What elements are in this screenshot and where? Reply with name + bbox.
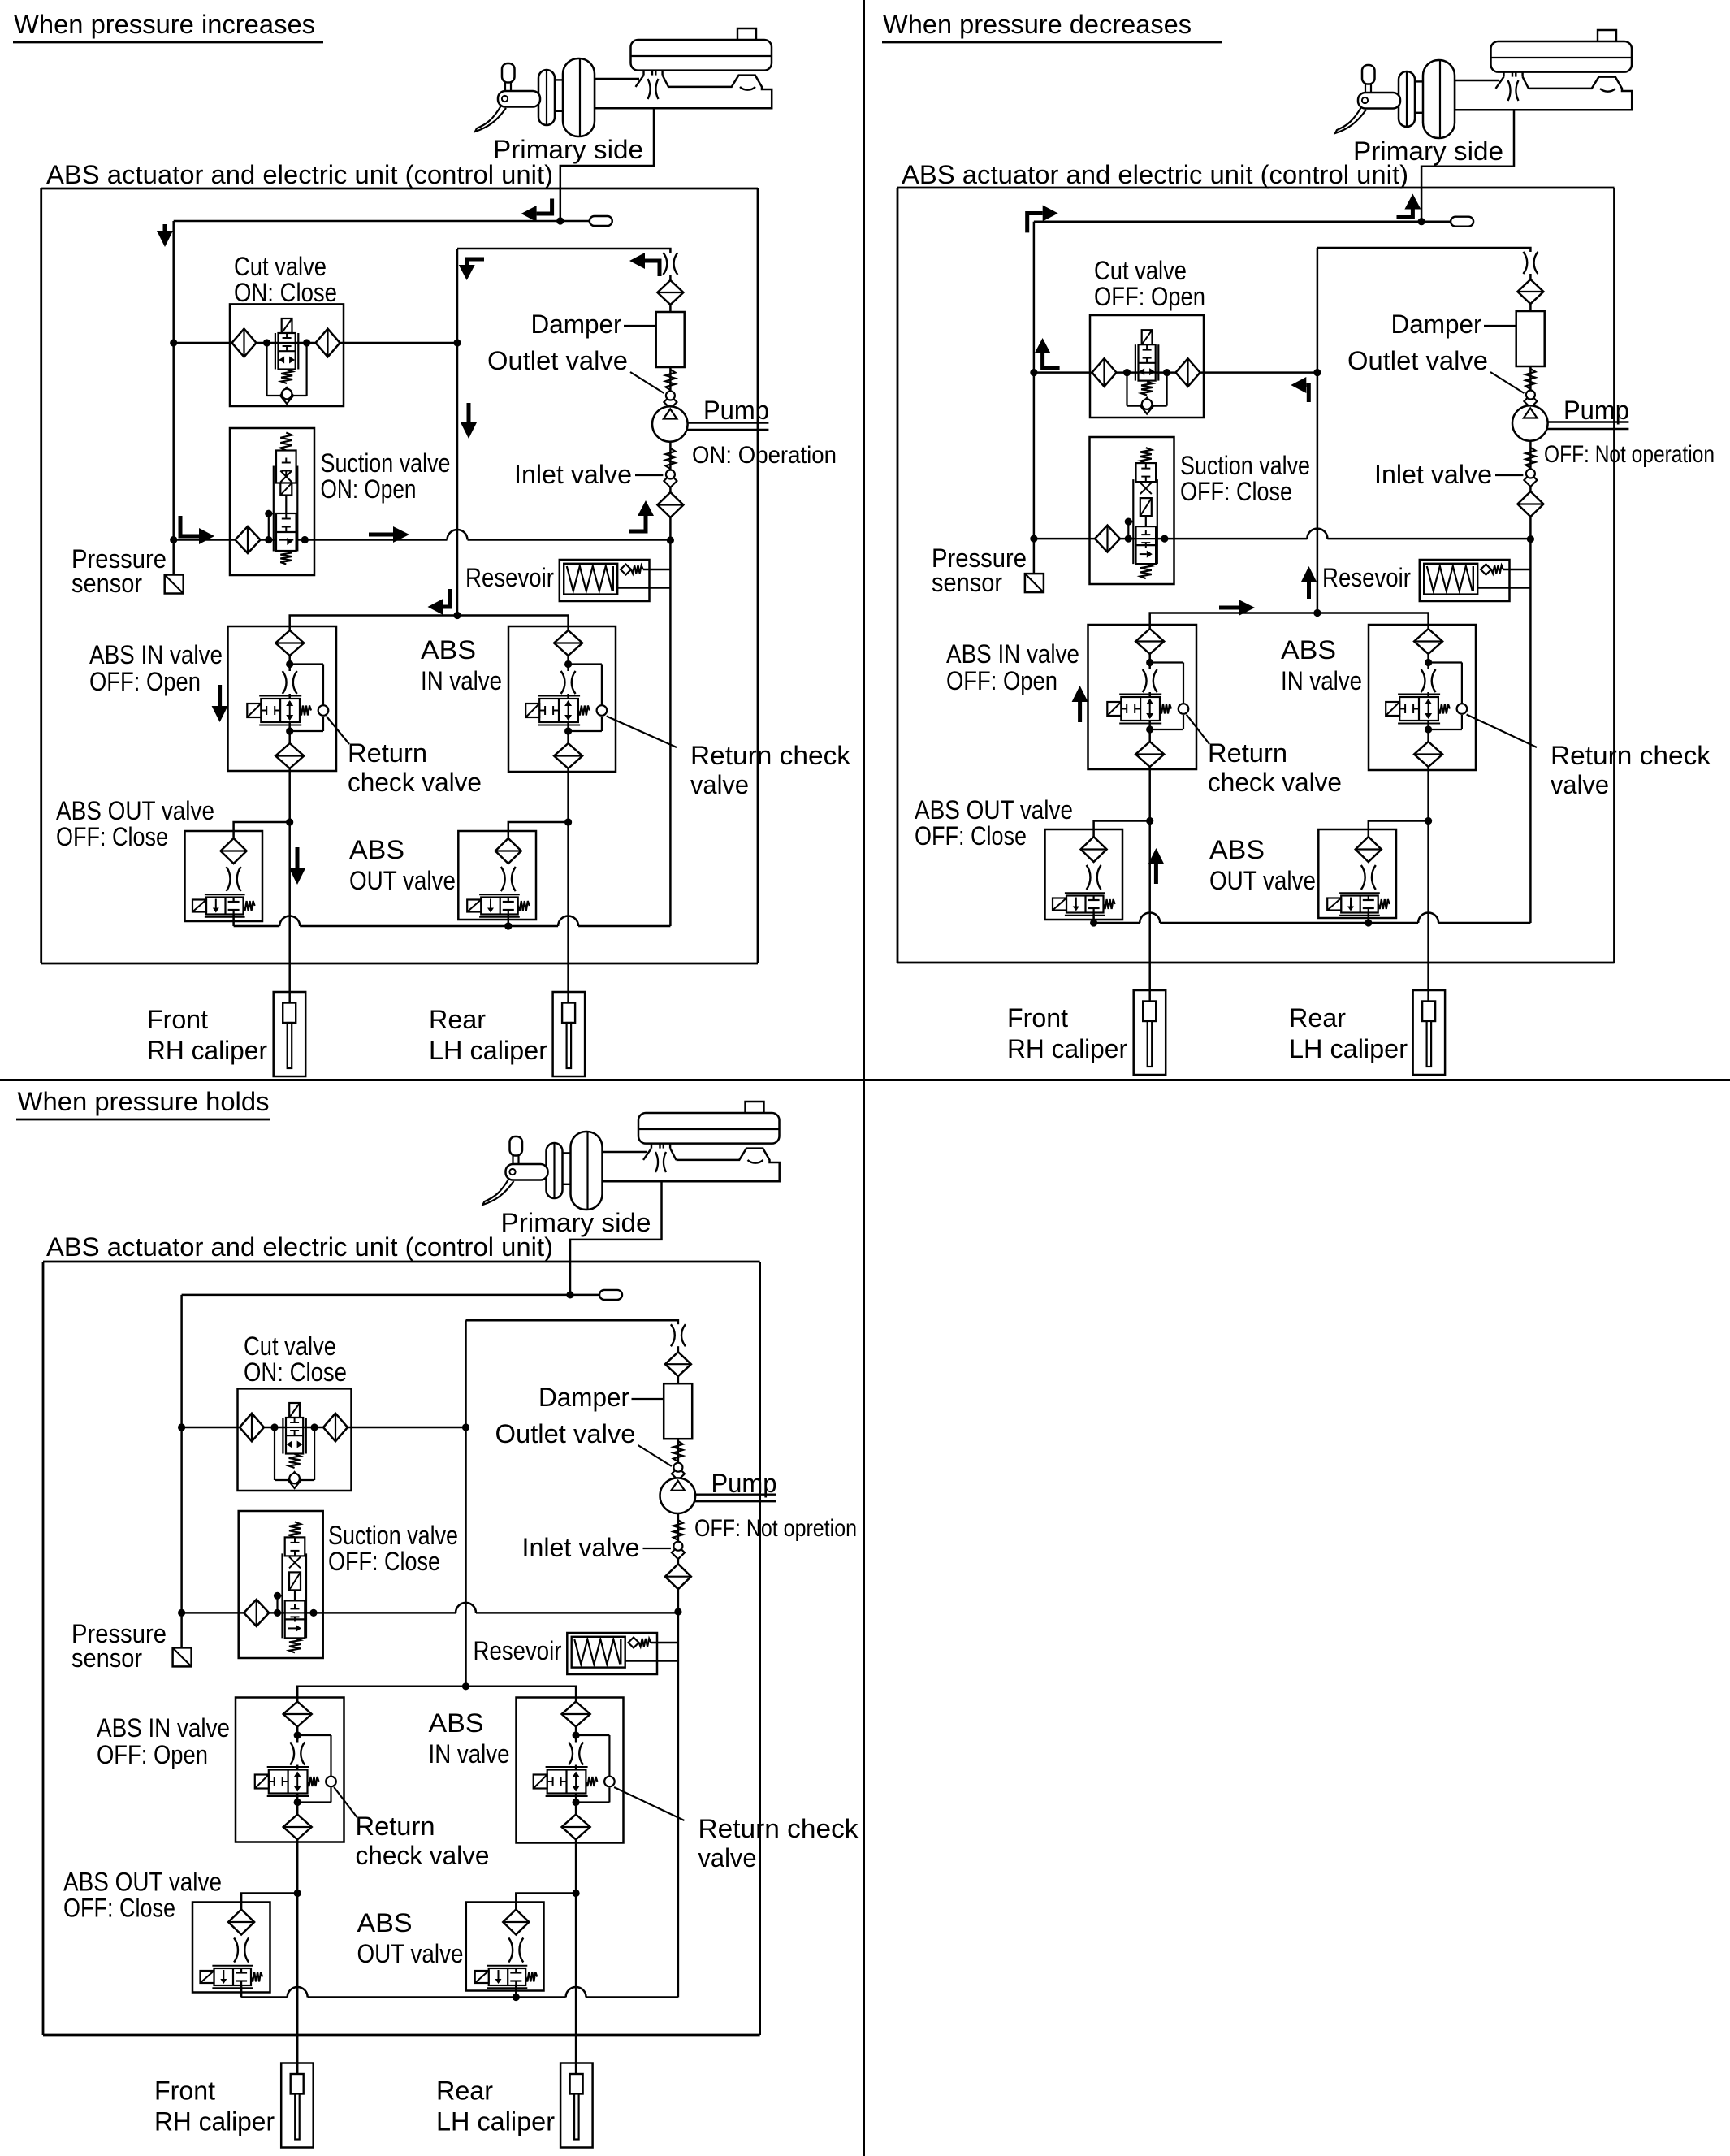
panel 1 (when pressure increases): front ABS IN valve spring xyxy=(300,706,311,716)
cut valve bypass check valve xyxy=(288,1472,301,1488)
svg-text:IN valve: IN valve xyxy=(429,1739,510,1769)
suction valve bottom spring xyxy=(280,551,292,565)
panel 3 (when pressure holds): front ABS OUT valve solenoid xyxy=(201,1971,214,1983)
outlet valve spring xyxy=(665,370,675,390)
svg-text:Outlet valve: Outlet valve xyxy=(495,1419,636,1448)
panel 1 (when pressure increases): rear ABS IN valve top filter xyxy=(554,630,582,656)
pump circle xyxy=(660,1478,696,1513)
panel 3 (when pressure holds): wire from master cylinder xyxy=(570,1180,662,1295)
inlet valve spring xyxy=(665,448,675,469)
cut valve open arrows xyxy=(1139,368,1144,375)
svg-text:OFF: Close: OFF: Close xyxy=(56,822,168,851)
panel 3 (when pressure holds): junction dot distribution xyxy=(462,1682,469,1690)
cut valve inlet filter xyxy=(240,1414,264,1442)
panel 2 (when pressure decreases): distribution line xyxy=(1150,613,1429,626)
panel 3 (when pressure holds): rear OUT branch wire xyxy=(516,1894,576,1923)
panel 2 (when pressure decreases): front ABS IN valve spring xyxy=(1160,704,1171,714)
svg-text:Pump: Pump xyxy=(1563,396,1629,425)
panel 2 (when pressure decreases): front ABS IN valve upper junction dot xyxy=(1146,659,1153,666)
panel 3 (when pressure holds): rear ABS IN valve upper junction dot xyxy=(573,1731,580,1738)
brake booster xyxy=(1423,60,1455,138)
panel 2 (when pressure decreases): bleeder pill connector xyxy=(1421,220,1451,223)
cut valve pilot xyxy=(289,1403,300,1418)
panel 3 (when pressure holds): junction dot suction line xyxy=(178,1609,185,1617)
pump circle xyxy=(652,406,688,442)
panel 3 (when pressure holds): rear ABS IN valve top filter xyxy=(562,1702,590,1727)
panel 3 (when pressure holds): junction dot pump inlet xyxy=(674,1608,681,1615)
panel 1 (when pressure increases): front ABS IN valve solenoid valve body xyxy=(261,699,300,722)
master cylinder port curves xyxy=(1508,80,1511,101)
svg-text:ABS IN valve: ABS IN valve xyxy=(946,639,1079,669)
cut valve body xyxy=(279,333,296,370)
panel 2 (when pressure decreases): front ABS IN valve bottom filter xyxy=(1135,742,1164,767)
cut valve bypass xyxy=(274,1427,275,1480)
panel 2 (when pressure decreases): junction dot suction line xyxy=(1030,535,1037,543)
booster output rod xyxy=(603,1152,647,1181)
panel 3 (when pressure holds): rear OUT junction dot xyxy=(573,1890,580,1897)
panel 3 (when pressure holds): Return check valve pointer front xyxy=(334,1787,357,1817)
suction valve pilot xyxy=(280,483,292,496)
panel divider horizontal xyxy=(0,1079,1730,1081)
panel 1 (when pressure increases): rear ABS OUT valve spring xyxy=(518,901,530,911)
suction valve branch xyxy=(278,1595,283,1596)
panel 2 (when pressure decreases): rear ABS IN valve solenoid valve body xyxy=(1399,697,1438,721)
panel 3 (when pressure holds): front ABS OUT valve restriction xyxy=(234,1938,249,1963)
suction valve line dot right xyxy=(1161,535,1168,543)
panel 1 (when pressure increases): flow arrow elbow xyxy=(443,589,451,607)
tank cap xyxy=(746,1102,764,1113)
panel 1 (when pressure increases): front ABS IN valve bottom filter xyxy=(275,743,304,768)
svg-text:Pump: Pump xyxy=(703,396,769,425)
reservoir check valve xyxy=(621,565,631,575)
svg-text:ABS actuator and electric unit: ABS actuator and electric unit (control … xyxy=(46,160,553,189)
caliper piston xyxy=(291,2074,304,2094)
cut valve box xyxy=(1090,315,1204,418)
suction valve pilot xyxy=(1140,498,1152,516)
svg-text:Damper: Damper xyxy=(531,310,622,339)
panel 2 (when pressure decreases): main supply vertical wire xyxy=(1033,222,1036,539)
panel 2 (when pressure decreases): rear ABS IN valve restriction xyxy=(1421,669,1436,692)
svg-text:check valve: check valve xyxy=(1208,768,1342,797)
reservoir inner box (piston) xyxy=(572,1637,625,1668)
panel 2 (when pressure decreases): rear caliper column wire xyxy=(1427,625,1429,1002)
panel 1 (when pressure increases): junction dot cut line xyxy=(170,339,177,346)
panel 1 (when pressure increases): title underline xyxy=(13,41,323,44)
panel 3 (when pressure holds): rear ABS OUT valve solenoid valve body xyxy=(489,1968,526,1985)
panel 2 (when pressure decreases): front ABS OUT valve filter xyxy=(1081,837,1107,862)
svg-text:Inlet valve: Inlet valve xyxy=(522,1533,640,1562)
svg-text:sensor: sensor xyxy=(71,1643,142,1673)
pump column restriction xyxy=(671,1324,686,1346)
suction valve upper body xyxy=(276,451,296,483)
panel 3 (when pressure holds): rear ABS IN valve lower junction dot xyxy=(573,1799,580,1806)
panel 2 (when pressure decreases): front OUT junction dot xyxy=(1146,817,1153,825)
panel 2 (when pressure decreases): primary inner line xyxy=(1034,220,1421,223)
panel 2 (when pressure decreases): front ABS IN valve top filter xyxy=(1135,629,1164,654)
svg-text:Damper: Damper xyxy=(538,1383,629,1412)
brake fluid reservoir tank xyxy=(631,40,772,71)
panel 3 (when pressure holds): rear ABS IN valve solenoid valve body xyxy=(547,1770,586,1794)
panel 3 (when pressure holds): front ABS OUT valve solenoid valve body xyxy=(214,1968,252,1985)
panel 1 (when pressure increases): front ABS IN valve restriction xyxy=(283,671,297,694)
panel 3 (when pressure holds): front OUT branch wire xyxy=(241,1894,297,1923)
panel 2 (when pressure decreases): front ABS OUT valve spring xyxy=(1104,899,1115,909)
panel 1 (when pressure increases): junction dot pump inlet xyxy=(667,536,674,543)
suction valve line dot right xyxy=(301,536,309,543)
panel 2 (when pressure decreases): rear ABS OUT valve restriction xyxy=(1361,865,1376,890)
inlet valve spring xyxy=(1525,448,1535,468)
svg-text:ABS OUT valve: ABS OUT valve xyxy=(63,1868,222,1897)
panel divider vertical xyxy=(863,0,865,2156)
svg-text:Front: Front xyxy=(1007,1003,1068,1033)
svg-text:Primary side: Primary side xyxy=(493,135,643,164)
panel 1 (when pressure increases): front ABS IN valve top filter xyxy=(275,630,304,656)
panel 2 (when pressure decreases): front ABS IN valve bypass xyxy=(1150,661,1183,663)
cut valve seat marks xyxy=(1143,349,1152,351)
panel 2 (when pressure decreases): rear ABS OUT valve solenoid valve body xyxy=(1341,896,1378,913)
panel 1 (when pressure increases): rear OUT valve bottom wire xyxy=(508,914,510,926)
pump inlet filter xyxy=(665,1564,691,1589)
suction valve filter xyxy=(1095,526,1120,552)
panel 1 (when pressure increases): rear ABS IN valve box xyxy=(508,626,616,772)
brake booster xyxy=(563,58,595,136)
svg-text:Rear: Rear xyxy=(436,2076,493,2106)
panel 2 (when pressure decreases): rear OUT valve bottom wire xyxy=(1368,912,1370,923)
panel 3 (when pressure holds): front ABS IN valve spring xyxy=(308,1777,319,1786)
pump shaft lines xyxy=(695,1493,776,1495)
caliper box xyxy=(281,2063,314,2148)
svg-text:Front: Front xyxy=(154,2076,215,2106)
reservoir spring xyxy=(567,566,612,591)
cut valve pilot xyxy=(1142,330,1153,344)
suction valve lower body xyxy=(1136,526,1157,564)
svg-text:OFF: Not opretion: OFF: Not opretion xyxy=(694,1515,857,1542)
svg-text:LH caliper: LH caliper xyxy=(429,1036,547,1065)
panel 3 (when pressure holds): rear ABS OUT valve filter xyxy=(503,1910,529,1935)
svg-text:valve: valve xyxy=(698,1843,757,1872)
panel 2 (when pressure decreases): Return check valve pointer rear xyxy=(1467,715,1537,748)
svg-text:Return check: Return check xyxy=(1551,741,1711,770)
cut valve junction dot left xyxy=(263,339,270,346)
panel 1 (when pressure increases): front ABS OUT valve solenoid xyxy=(192,900,206,912)
panel 3 (when pressure holds): front ABS IN valve return check valve circle xyxy=(326,1777,336,1787)
panel 1 (when pressure increases): control unit box xyxy=(40,188,42,963)
panel 1 (when pressure increases): primary inner line xyxy=(174,220,560,223)
svg-text:Rear: Rear xyxy=(429,1005,486,1034)
booster small disc xyxy=(538,70,555,125)
panel 1 (when pressure increases): rear ABS OUT valve filter xyxy=(495,838,521,864)
panel 2 (when pressure decreases): pressure sensor xyxy=(1025,574,1044,592)
panel 1 (when pressure increases): flow arrow elbow xyxy=(537,199,552,214)
panel 3 (when pressure holds): rear ABS IN valve solenoid xyxy=(534,1775,547,1789)
svg-text:OFF: Open: OFF: Open xyxy=(946,666,1057,695)
reservoir outer box xyxy=(560,560,650,601)
svg-text:ABS: ABS xyxy=(1209,835,1265,864)
panel 1 (when pressure increases): flow arrow elbow xyxy=(629,516,646,531)
panel 3 (when pressure holds): Return check valve pointer rear xyxy=(614,1787,684,1820)
panel 1 (when pressure increases): main supply vertical wire xyxy=(172,221,175,540)
panel 2 (when pressure decreases): rear ABS IN valve return check valve circle xyxy=(1457,704,1468,714)
panel 1 (when pressure increases): flow arrow elbow xyxy=(467,259,484,265)
suction valve line dot left xyxy=(265,536,272,543)
svg-text:OFF: Open: OFF: Open xyxy=(89,667,201,696)
panel 3 (when pressure holds): bleeder pill connector xyxy=(570,1294,599,1297)
panel 2 (when pressure decreases): cut valve output wire xyxy=(1034,371,1317,374)
pump shaft lines xyxy=(687,422,768,423)
panel 3 (when pressure holds): front ABS IN valve lower junction dot xyxy=(294,1799,301,1806)
panel 1 (when pressure increases): front ABS IN valve lower junction dot xyxy=(286,727,293,734)
svg-text:Primary side: Primary side xyxy=(501,1208,651,1237)
svg-text:OUT valve: OUT valve xyxy=(357,1939,464,1968)
svg-text:OFF: Close: OFF: Close xyxy=(328,1547,440,1576)
panel 2 (when pressure decreases): flow arrow elbow xyxy=(1397,210,1413,218)
panel 3 (when pressure holds): rear ABS OUT valve spring xyxy=(525,1972,537,1982)
booster small disc xyxy=(1399,71,1415,127)
panel 1 (when pressure increases): front ABS IN valve bypass xyxy=(290,663,323,665)
panel 3 (when pressure holds): front ABS IN valve top filter xyxy=(283,1702,312,1727)
panel 3 (when pressure holds): rear ABS OUT valve restriction xyxy=(508,1938,523,1963)
cut valve seat marks xyxy=(283,337,292,339)
svg-text:ABS: ABS xyxy=(349,835,404,864)
master cylinder port curves xyxy=(648,79,651,99)
panel 1 (when pressure increases): rear ABS IN valve spring xyxy=(578,706,590,716)
suction valve branch dot xyxy=(1125,518,1132,526)
panel 1 (when pressure increases): front ABS IN valve return check valve circle xyxy=(318,705,329,716)
cut valve junction dot right xyxy=(303,339,310,346)
panel 3 (when pressure holds): rear ABS IN valve restriction xyxy=(569,1743,583,1765)
cut valve outlet filter xyxy=(323,1414,348,1442)
panel 2 (when pressure decreases): rear ABS OUT valve filter xyxy=(1356,837,1382,862)
reservoir check valve xyxy=(1481,565,1491,575)
panel 2 (when pressure decreases): rear ABS IN valve box xyxy=(1369,625,1476,770)
suction valve top spring xyxy=(280,433,292,451)
panel 2 (when pressure decreases): flow arrow elbow xyxy=(1027,214,1043,233)
svg-text:ABS actuator and electric unit: ABS actuator and electric unit (control … xyxy=(902,160,1408,189)
reservoir check to pump line xyxy=(651,1642,678,1644)
panel 3 (when pressure holds): front caliper column wire xyxy=(296,1698,299,2075)
panel 1 (when pressure increases): rear ABS IN valve restriction xyxy=(561,671,576,694)
suction valve link xyxy=(285,496,287,514)
panel 1 (when pressure increases): flow arrow plain xyxy=(467,403,471,424)
panel 2 (when pressure decreases): title underline xyxy=(882,41,1222,44)
panel 3 (when pressure holds): rear ABS IN valve spring xyxy=(586,1777,597,1786)
svg-text:OUT valve: OUT valve xyxy=(1209,866,1316,895)
panel 3 (when pressure holds): front ABS IN valve box xyxy=(236,1698,344,1842)
panel 2 (when pressure decreases): Return check valve pointer front xyxy=(1187,715,1209,745)
inlet valve check xyxy=(672,1546,685,1559)
panel 1 (when pressure increases): rear ABS OUT valve solenoid valve body xyxy=(481,898,518,915)
panel 3 (when pressure holds): rear ABS IN valve box xyxy=(517,1698,624,1843)
panel 1 (when pressure increases): rear caliper column wire xyxy=(567,626,569,1003)
master cylinder port curves xyxy=(655,1152,658,1172)
panel 1 (when pressure increases): rear ABS OUT valve box xyxy=(458,831,536,920)
panel 2 (when pressure decreases): front OUT branch wire xyxy=(1094,821,1150,851)
panel 3 (when pressure holds): rear ABS IN valve bypass xyxy=(576,1734,609,1736)
panel 1 (when pressure increases): front ABS OUT valve box xyxy=(185,831,263,921)
pump inlet filter xyxy=(1517,491,1543,517)
master cylinder body and mount xyxy=(1503,72,1504,77)
svg-text:OFF: Close: OFF: Close xyxy=(63,1894,175,1923)
svg-text:Suction valve: Suction valve xyxy=(321,448,451,478)
cut valve seat marks xyxy=(290,1422,299,1423)
panel 3 (when pressure holds): suction output wire xyxy=(182,1612,456,1614)
panel 1 (when pressure increases): flow arrow plain xyxy=(218,685,222,708)
panel 1 (when pressure increases): junction dot distribution xyxy=(453,612,461,619)
panel 1 (when pressure increases): Return check valve pointer front xyxy=(327,717,349,745)
panel 2 (when pressure decreases): front ABS OUT valve solenoid valve body xyxy=(1066,896,1104,913)
suction valve line dot left xyxy=(274,1609,281,1617)
panel 2 (when pressure decreases): front OUT return dot xyxy=(1090,919,1097,926)
reservoir spring xyxy=(574,1639,620,1665)
panel 1 (when pressure increases): rear OUT branch wire xyxy=(508,822,569,851)
caliper piston xyxy=(1422,1002,1435,1022)
cut valve body xyxy=(1139,344,1156,380)
svg-text:ABS: ABS xyxy=(1281,635,1336,665)
cut valve outlet filter xyxy=(316,329,340,357)
panel 2 (when pressure decreases): wire to pressure sensor xyxy=(1033,539,1036,574)
svg-text:Inlet valve: Inlet valve xyxy=(1374,460,1492,489)
panel 2 (when pressure decreases): rear OUT return dot xyxy=(1365,919,1372,926)
panel 2 (when pressure decreases): pump loop top wire xyxy=(1317,248,1531,253)
panel 3 (when pressure holds): rear OUT return dot xyxy=(513,1994,520,2001)
svg-text:Resevoir: Resevoir xyxy=(474,1636,562,1665)
outlet valve check xyxy=(1524,395,1537,408)
panel 1 (when pressure increases): rear ABS IN valve upper junction dot xyxy=(564,660,572,668)
damper D xyxy=(664,1383,692,1439)
panel 1 (when pressure increases): pump return vertical wire xyxy=(669,540,672,926)
caliper box xyxy=(553,992,586,1076)
brake pedal post xyxy=(1362,65,1375,84)
panel 1 (when pressure increases): rear OUT junction dot xyxy=(564,818,572,825)
reservoir bottom return line xyxy=(617,587,670,589)
suction valve side rails xyxy=(1132,479,1134,564)
tank cap xyxy=(737,28,756,40)
panel 3 (when pressure holds): front ABS OUT valve filter xyxy=(228,1910,254,1935)
suction valve link xyxy=(1145,516,1147,526)
svg-text:RH caliper: RH caliper xyxy=(154,2107,275,2137)
reservoir check valve xyxy=(629,1638,639,1648)
panel 3 (when pressure holds): pump loop left edge wire xyxy=(465,1320,467,1686)
booster links xyxy=(563,1152,571,1154)
svg-text:sensor: sensor xyxy=(71,569,142,598)
pump column filter xyxy=(1517,279,1543,304)
suction valve branch xyxy=(1128,521,1133,522)
cut valve junction dot right xyxy=(1163,369,1170,376)
caliper piston xyxy=(570,2074,583,2094)
brake pedal arm xyxy=(498,91,540,107)
suction valve closed mark xyxy=(280,471,292,483)
panel 3 (when pressure holds): junction dot at loop left edge xyxy=(462,1423,469,1431)
caliper box xyxy=(560,2063,593,2148)
panel 2 (when pressure decreases): wire from master cylinder xyxy=(1421,109,1514,222)
panel 1 (when pressure increases): rear ABS IN valve solenoid valve body xyxy=(539,699,578,722)
panel 1 (when pressure increases): return line xyxy=(234,925,280,928)
panel 2 (when pressure decreases): front ABS OUT valve solenoid xyxy=(1053,898,1066,911)
svg-text:Pump: Pump xyxy=(711,1469,777,1498)
panel 2 (when pressure decreases): rear ABS OUT valve solenoid xyxy=(1327,898,1341,911)
suction valve branch xyxy=(269,513,274,514)
svg-text:Outlet valve: Outlet valve xyxy=(1347,346,1488,375)
panel 2 (when pressure decreases): rear ABS IN valve bottom filter xyxy=(1414,742,1442,767)
cut valve box xyxy=(238,1388,352,1491)
panel 3 (when pressure holds): return line xyxy=(241,1996,288,1998)
panel 2 (when pressure decreases): suction output wire xyxy=(1034,538,1308,540)
svg-text:Front: Front xyxy=(147,1005,208,1034)
svg-text:Return: Return xyxy=(348,738,427,768)
panel 1 (when pressure increases): flow arrow elbow xyxy=(645,261,660,276)
panel 2 (when pressure decreases): return line xyxy=(1094,922,1140,924)
svg-text:LH caliper: LH caliper xyxy=(436,2107,555,2137)
panel 1 (when pressure increases): bleeder pill connector xyxy=(560,220,590,223)
cut valve spring xyxy=(289,1454,301,1468)
pump column filter xyxy=(665,1352,691,1376)
panel 1 (when pressure increases): front ABS OUT valve filter xyxy=(221,838,247,864)
svg-text:OFF: Not operation: OFF: Not operation xyxy=(1544,441,1715,468)
svg-text:valve: valve xyxy=(1551,770,1609,799)
caliper piston xyxy=(283,1003,296,1024)
panel 1 (when pressure increases): wire to pressure sensor xyxy=(172,540,175,575)
cut valve pilot xyxy=(282,318,292,333)
brake pedal foot xyxy=(475,106,506,132)
brake fluid reservoir tank xyxy=(1491,41,1633,72)
reservoir check to pump line xyxy=(1503,569,1531,571)
panel 3 (when pressure holds): front OUT junction dot xyxy=(294,1890,301,1897)
panel 2 (when pressure decreases): pump loop left edge wire xyxy=(1317,248,1319,613)
suction valve filter xyxy=(244,1600,269,1626)
panel 3 (when pressure holds): front ABS IN valve restriction xyxy=(290,1743,305,1765)
panel 2 (when pressure decreases): flow arrow plain xyxy=(1307,581,1311,599)
caliper piston xyxy=(1143,1002,1156,1022)
panel 2 (when pressure decreases): flow arrow plain xyxy=(1219,606,1240,610)
panel 1 (when pressure increases): flow arrow plain xyxy=(296,847,300,870)
cut valve bypass check valve xyxy=(280,387,293,404)
svg-text:Resevoir: Resevoir xyxy=(465,563,554,592)
pump triangle xyxy=(664,409,677,419)
panel 2 (when pressure decreases): pump column wire xyxy=(1529,253,1532,539)
cut valve junction dot left xyxy=(270,1423,278,1431)
cut valve box xyxy=(230,304,344,406)
reservoir inner box (piston) xyxy=(564,564,617,595)
outlet valve check xyxy=(664,396,677,409)
suction valve upper body xyxy=(1136,463,1157,482)
svg-text:check valve: check valve xyxy=(356,1841,490,1870)
panel 1 (when pressure increases): cut valve output wire xyxy=(174,342,457,344)
svg-text:Damper: Damper xyxy=(1391,310,1482,339)
svg-text:Return check: Return check xyxy=(690,741,851,770)
brake booster xyxy=(571,1132,603,1210)
panel 3 (when pressure holds): rear ABS OUT valve box xyxy=(466,1903,544,1991)
svg-text:When pressure decreases: When pressure decreases xyxy=(883,10,1192,39)
caliper piston xyxy=(562,1003,575,1024)
brake pedal post xyxy=(510,1136,523,1156)
panel 2 (when pressure decreases): front ABS IN valve box xyxy=(1088,625,1197,769)
suction valve branch dot xyxy=(274,1592,281,1600)
booster output rod xyxy=(1455,80,1499,110)
panel 1 (when pressure increases): flow arrow elbow xyxy=(180,516,199,536)
panel 3 (when pressure holds): rear ABS OUT valve solenoid xyxy=(475,1971,489,1983)
suction valve bottom spring xyxy=(289,1638,301,1652)
suction valve closed mark xyxy=(1140,483,1152,494)
brake fluid reservoir tank xyxy=(638,1113,780,1144)
suction valve box xyxy=(239,1511,323,1658)
svg-text:OFF: Close: OFF: Close xyxy=(915,821,1027,851)
pump circle xyxy=(1512,405,1548,441)
inlet valve check xyxy=(1524,474,1537,487)
reservoir spring xyxy=(1427,566,1473,591)
panel 3 (when pressure holds): rear ABS IN valve bottom filter xyxy=(562,1815,590,1840)
inlet valve spring xyxy=(673,1520,683,1540)
panel 1 (when pressure increases): pressure sensor xyxy=(165,575,184,594)
